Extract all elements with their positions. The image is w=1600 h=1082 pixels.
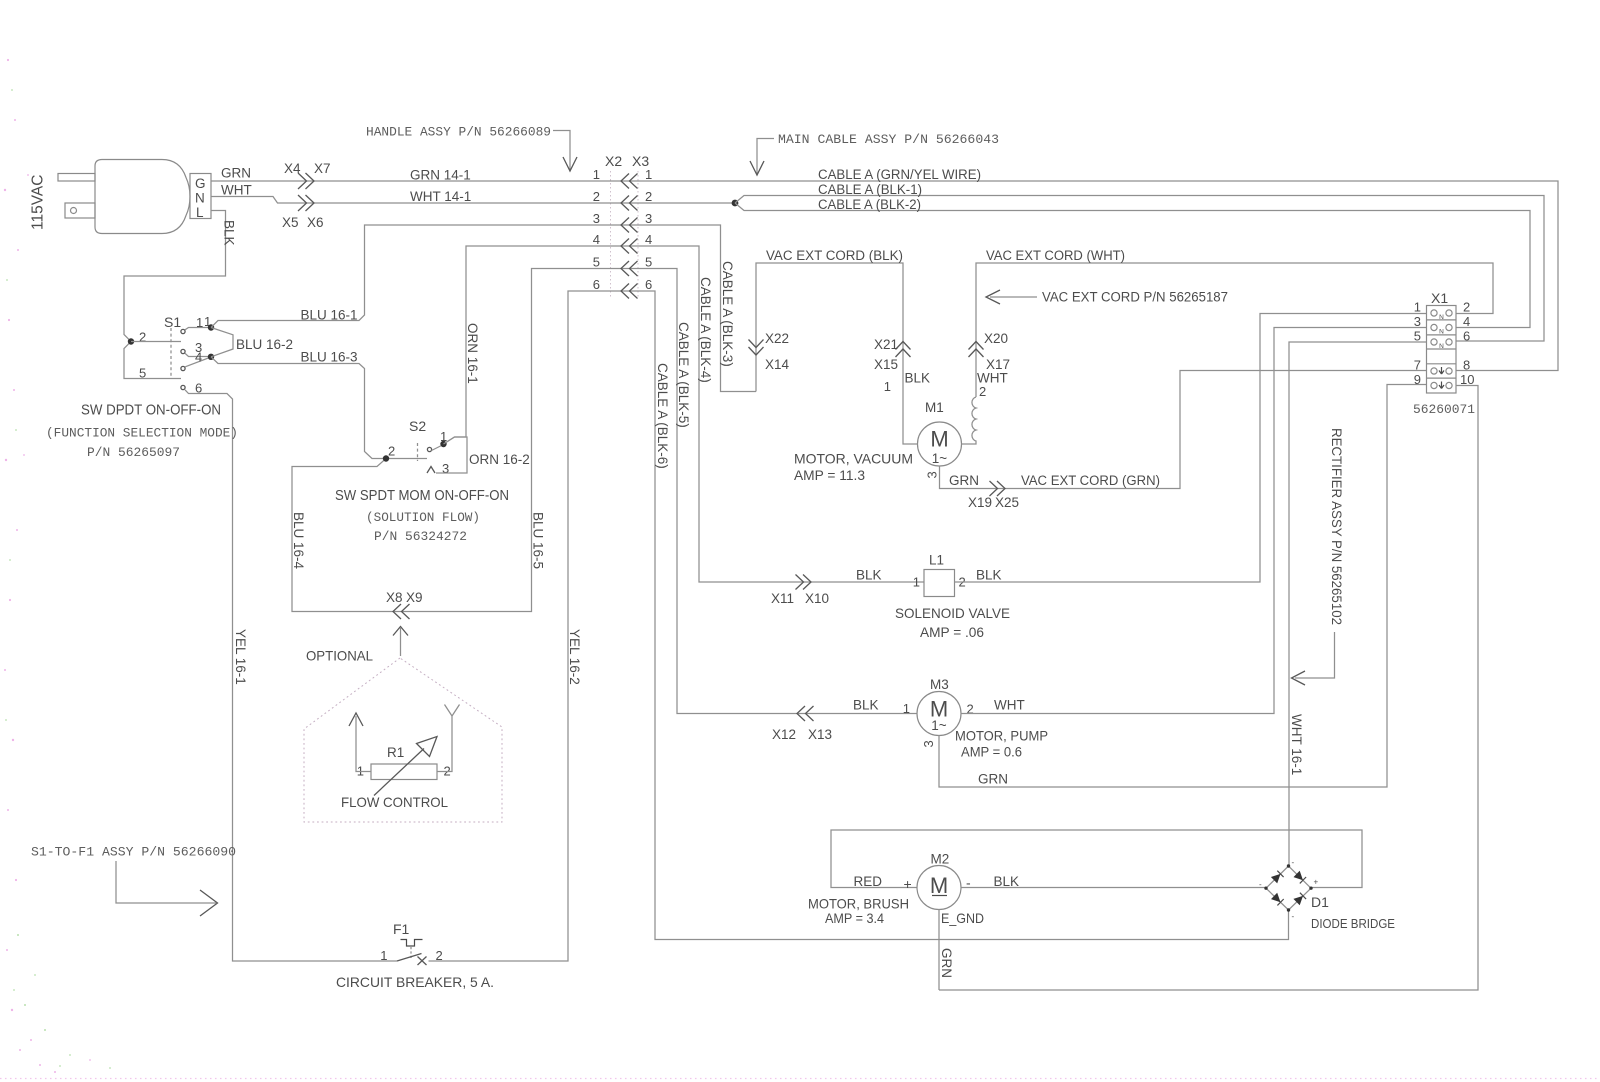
svg-text:BLU 16-3: BLU 16-3 [301, 350, 358, 365]
switch S1 DPDT [139, 314, 211, 396]
svg-text:X21: X21 [874, 337, 898, 352]
svg-text:4: 4 [593, 232, 600, 247]
svg-text:GRN: GRN [949, 473, 979, 488]
wire CABLE A BLK-3 X2 pin3 to vac ext cord [638, 225, 756, 392]
svg-text:X10: X10 [805, 591, 829, 606]
svg-text:VAC EXT CORD (WHT): VAC EXT CORD (WHT) [986, 248, 1125, 263]
diode D1d bottom-right [1293, 893, 1306, 906]
wire M2 E_GND GRN down to rail [938, 910, 940, 991]
svg-text:1: 1 [645, 167, 652, 182]
svg-text:1~: 1~ [931, 718, 947, 733]
svg-text:1~: 1~ [932, 451, 948, 466]
svg-text:MOTOR, PUMP: MOTOR, PUMP [955, 728, 1048, 744]
svg-text:GRN 14-1: GRN 14-1 [410, 168, 471, 183]
splice X20 X17 [969, 331, 1011, 372]
dashed optional boundary [304, 658, 502, 822]
wire CABLE A BLK-4 X3 pin4 to L1 pin1 [638, 246, 924, 582]
svg-text:F1: F1 [393, 921, 410, 937]
wire GRN / VAC EXT CORD GRN M1 pin3 to X1 pin7 [940, 371, 1427, 489]
splice X11 X10 [771, 575, 829, 607]
svg-text:3: 3 [925, 471, 940, 478]
splice X8 X9 [386, 590, 423, 619]
diode D1b left-bottom [1271, 893, 1284, 906]
svg-text:1: 1 [903, 701, 910, 716]
svg-text:4: 4 [1463, 314, 1470, 329]
svg-text:CIRCUIT BREAKER, 5 A.: CIRCUIT BREAKER, 5 A. [336, 974, 494, 990]
svg-text:7: 7 [1414, 358, 1421, 373]
svg-text:(SOLUTION FLOW): (SOLUTION FLOW) [366, 510, 480, 525]
wire L1 pin2 to X1 pin1 [955, 314, 1427, 583]
svg-text:P/N 56265097: P/N 56265097 [87, 445, 180, 460]
splice X22 X14 [749, 331, 790, 372]
svg-text:2: 2 [967, 702, 974, 717]
svg-text:OPTIONAL: OPTIONAL [306, 648, 373, 664]
wire BLU 16-1 S1 pin1 to X2 pin3 [211, 225, 610, 328]
svg-text:YEL 16-2: YEL 16-2 [567, 629, 582, 685]
svg-text:2: 2 [436, 948, 443, 963]
svg-text:S1-TO-F1 ASSY P/N 56266090: S1-TO-F1 ASSY P/N 56266090 [31, 845, 236, 860]
svg-text:10: 10 [1460, 372, 1474, 387]
wire GRN 14-1 plug to X2 pin1 [211, 180, 610, 182]
diode D1c top-right [1294, 871, 1307, 884]
connector X1 terminal block [1413, 290, 1475, 417]
svg-text:M: M [930, 873, 948, 898]
svg-text:RED: RED [854, 874, 883, 889]
svg-text:X11: X11 [771, 591, 794, 606]
svg-text:2: 2 [593, 189, 600, 204]
svg-text:D1: D1 [1311, 894, 1329, 910]
svg-text:3: 3 [593, 211, 600, 226]
svg-text:AMP = 0.6: AMP = 0.6 [961, 744, 1022, 760]
svg-text:56260071: 56260071 [1413, 402, 1475, 417]
wire X2 pin4 to S2 ORN 16-1 [444, 246, 611, 444]
svg-text:1: 1 [380, 948, 387, 963]
svg-text:6: 6 [645, 277, 652, 292]
svg-text:X8: X8 [386, 590, 403, 605]
circuit breaker F1 [336, 921, 494, 990]
svg-text:1: 1 [1414, 300, 1421, 315]
svg-text:CABLE A (BLK-4): CABLE A (BLK-4) [698, 277, 713, 383]
svg-text:AMP = 3.4: AMP = 3.4 [825, 910, 884, 926]
svg-text:SOLENOID VALVE: SOLENOID VALVE [895, 605, 1010, 621]
wire X1 pin10 to M2 ground rail [939, 386, 1478, 991]
svg-text:CABLE A (BLK-6): CABLE A (BLK-6) [655, 363, 670, 469]
svg-text:VAC EXT CORD P/N 56265187: VAC EXT CORD P/N 56265187 [1042, 290, 1228, 305]
svg-text:CABLE A (GRN/YEL WIRE): CABLE A (GRN/YEL WIRE) [818, 167, 981, 182]
inductor M1 winding [962, 397, 977, 444]
svg-text:X2: X2 [605, 153, 622, 169]
junction dot S1 pin3/4 [208, 354, 214, 360]
scan noise speckles [4, 59, 91, 1073]
svg-text:GRN: GRN [978, 772, 1008, 787]
svg-text:3: 3 [442, 461, 449, 476]
motor M1 [918, 400, 962, 466]
svg-text:M2: M2 [931, 852, 950, 867]
svg-text:CABLE A (BLK-3): CABLE A (BLK-3) [720, 261, 735, 367]
svg-text:3: 3 [1414, 314, 1421, 329]
junction dot S1 pole 2 [128, 338, 134, 344]
svg-text:X13: X13 [808, 727, 832, 742]
svg-text:1: 1 [196, 315, 203, 330]
svg-text:VAC EXT CORD (BLK): VAC EXT CORD (BLK) [766, 248, 903, 263]
svg-text:L1: L1 [929, 553, 944, 568]
svg-text:2: 2 [388, 444, 395, 459]
svg-text:3: 3 [645, 211, 652, 226]
svg-text:X15: X15 [874, 357, 898, 372]
svg-text:X7: X7 [314, 161, 331, 176]
label VAC EXT CORD P/N 56265187 with arrow [986, 290, 1228, 305]
svg-text:CABLE A (BLK-1): CABLE A (BLK-1) [818, 182, 922, 197]
wire X2 pin5 to S2 box BLU 16-5 [292, 269, 610, 612]
svg-text:-: - [1292, 912, 1295, 921]
svg-text:SW SPDT MOM ON-OFF-ON: SW SPDT MOM ON-OFF-ON [335, 488, 509, 504]
optional flow control group [304, 627, 502, 823]
diode D1a left-top [1271, 871, 1284, 884]
solenoid L1 [913, 553, 966, 597]
svg-text:WHT 16-1: WHT 16-1 [1289, 714, 1304, 775]
svg-text:BLK: BLK [856, 568, 882, 583]
motor M2 brush [917, 852, 961, 910]
svg-text:9: 9 [1414, 372, 1421, 387]
wire X2 pin6 to F1 YEL 16-2 [429, 291, 611, 961]
junction dot S2 pin2 [383, 455, 389, 461]
svg-text:E_GND: E_GND [941, 910, 984, 926]
svg-text:X9: X9 [406, 590, 423, 605]
svg-text:WHT: WHT [994, 698, 1025, 713]
svg-text:X1: X1 [1431, 290, 1448, 306]
svg-text:BLK: BLK [222, 220, 237, 246]
svg-text:CABLE A (BLK-2): CABLE A (BLK-2) [818, 197, 921, 212]
svg-text:2: 2 [645, 189, 652, 204]
wire BLU 16-3 S1 pin4 to S2 pin2 [211, 357, 386, 459]
svg-text:S1: S1 [164, 314, 181, 330]
svg-text:L: L [196, 205, 204, 220]
svg-text:AMP = 11.3: AMP = 11.3 [794, 467, 865, 483]
svg-text:S2: S2 [409, 418, 426, 434]
svg-text:GRN: GRN [221, 166, 251, 181]
svg-text:VAC EXT CORD (GRN): VAC EXT CORD (GRN) [1021, 473, 1160, 488]
label RECTIFIER ASSY P/N 56265102 with arrow [1292, 428, 1345, 685]
svg-text:5: 5 [593, 255, 600, 270]
wire CABLE A BLK-2 to X1 pin4 [735, 203, 1530, 328]
svg-text:M1: M1 [925, 400, 944, 415]
svg-text:1: 1 [884, 379, 891, 394]
arrow to X8 X9 [400, 628, 402, 656]
svg-text:(FUNCTION SELECTION MODE): (FUNCTION SELECTION MODE) [46, 426, 238, 441]
wire CABLE A GRN/YEL from X3 pin1 to X1 pin8 [638, 181, 1558, 371]
diode bridge D1 [1259, 858, 1395, 931]
wire VAC EXT CORD BLK to M1 pin1 [756, 263, 918, 444]
svg-text:BLU 16-2: BLU 16-2 [236, 337, 293, 352]
splice X5 X6 [282, 195, 324, 230]
svg-text:-: - [1259, 880, 1262, 889]
svg-text:ORN 16-1: ORN 16-1 [465, 323, 480, 384]
wire CABLE A BLK-6 X3 pin6 to D1 bridge bottom [638, 291, 1289, 940]
connector X2 X3 [593, 153, 652, 299]
label S1-TO-F1 ASSY with arrow [31, 845, 236, 917]
motor M3 [917, 677, 961, 736]
svg-text:N: N [195, 191, 205, 206]
wire ORN 16-2 S2 pin1 to pin3 [436, 437, 467, 473]
svg-text:-: - [966, 875, 971, 891]
svg-text:M: M [930, 427, 948, 452]
label HANDLE ASSY P/N 56266089 [366, 125, 577, 172]
svg-text:MOTOR, VACUUM: MOTOR, VACUUM [794, 451, 913, 467]
svg-text:4: 4 [195, 350, 202, 365]
wire X1 pin5 WHT 16-1 to D1 top [1289, 342, 1426, 866]
wire YEL 16-1 S1 pin6 to F1 [185, 390, 397, 961]
svg-text:ORN 16-2: ORN 16-2 [469, 452, 530, 467]
svg-text:G: G [195, 176, 206, 191]
svg-text:8: 8 [1463, 358, 1470, 373]
svg-text:WHT 14-1: WHT 14-1 [410, 189, 471, 204]
svg-text:X22: X22 [765, 331, 789, 346]
svg-text:BLU 16-5: BLU 16-5 [531, 512, 546, 569]
svg-text:N: N [1439, 343, 1444, 350]
svg-text:BLK: BLK [905, 371, 931, 386]
svg-text:X14: X14 [765, 357, 790, 372]
momentary contact arrow pin3 [427, 467, 435, 474]
splice X4 X7 [284, 161, 331, 189]
label MAIN CABLE ASSY P/N 56266043 [750, 132, 999, 175]
node dots D1 [1287, 864, 1290, 867]
wire BLK plug to S1 poles [124, 211, 226, 379]
wire M2 minus to D1 left [961, 887, 1266, 889]
svg-text:BLK: BLK [994, 874, 1020, 889]
wire CABLE A BLK-1 to X1 pin6 [735, 196, 1544, 342]
wire WHT 14-1 plug to X2 pin2 [211, 197, 610, 204]
svg-text:3: 3 [921, 740, 936, 747]
svg-text:MAIN CABLE ASSY P/N 56266043: MAIN CABLE ASSY P/N 56266043 [778, 132, 999, 147]
svg-text:WHT: WHT [221, 183, 252, 198]
wire VAC EXT CORD WHT M1 pin2 to X1 pin2 [976, 263, 1493, 397]
svg-text:X20: X20 [984, 331, 1008, 346]
svg-text:6: 6 [593, 277, 600, 292]
junction dot S2 pin1 [440, 441, 446, 447]
svg-text:FLOW CONTROL: FLOW CONTROL [341, 794, 448, 810]
junction dot S1 pin1 [208, 324, 214, 330]
wire M3 pin2 WHT to X1 pin3 [961, 328, 1426, 714]
svg-text:2: 2 [979, 384, 986, 399]
wire BLU 16-2 S1 pin1 to pin3 [211, 328, 233, 357]
svg-text:-: - [1292, 858, 1295, 867]
svg-text:6: 6 [1463, 329, 1470, 344]
svg-text:N: N [1439, 329, 1444, 336]
svg-text:X25: X25 [995, 495, 1019, 510]
svg-text:X6: X6 [307, 215, 324, 230]
splice X12 X13 [772, 706, 832, 742]
svg-text:HANDLE ASSY P/N 56266089: HANDLE ASSY P/N 56266089 [366, 125, 551, 140]
power plug 115VAC [58, 160, 211, 234]
svg-text:SW DPDT ON-OFF-ON: SW DPDT ON-OFF-ON [81, 403, 221, 419]
splice X19 X25 [968, 481, 1019, 510]
splice X21 X15 [874, 337, 911, 372]
svg-text:R1: R1 [387, 745, 404, 760]
potentiometer wiper arrow [374, 749, 424, 796]
svg-text:X4: X4 [284, 161, 301, 176]
svg-text:DIODE BRIDGE: DIODE BRIDGE [1311, 917, 1395, 931]
svg-text:GRN: GRN [939, 948, 954, 978]
wire S1 pole 2 arm [131, 341, 181, 343]
junction dot cable A split [732, 200, 739, 207]
svg-text:5: 5 [139, 366, 146, 381]
svg-text:5: 5 [1414, 329, 1421, 344]
wire X3 pin2 to junction [638, 202, 735, 204]
svg-text:AMP = .06: AMP = .06 [920, 624, 984, 640]
svg-text:BLU 16-4: BLU 16-4 [291, 512, 306, 570]
svg-text:X12: X12 [772, 727, 796, 742]
svg-text:115VAC: 115VAC [30, 175, 47, 230]
svg-text:YEL 16-1: YEL 16-1 [233, 629, 248, 685]
svg-text:M3: M3 [930, 677, 949, 692]
svg-text:1: 1 [593, 167, 600, 182]
svg-text:CABLE A (BLK-5): CABLE A (BLK-5) [676, 322, 691, 428]
svg-text:P/N 56324272: P/N 56324272 [374, 529, 467, 544]
wire M3 pin3 GRN to X1 pin9 [939, 385, 1426, 788]
svg-text:2: 2 [1463, 300, 1470, 315]
wire R1 pin2 fork [437, 705, 460, 772]
svg-text:4: 4 [645, 232, 652, 247]
wire CABLE A BLK-5 X3 pin5 to M3 pin1 [638, 269, 917, 714]
switch S2 SPDT MOM [386, 418, 449, 476]
svg-text:2: 2 [139, 330, 146, 345]
svg-text:X5: X5 [282, 215, 299, 230]
svg-text:+: + [1314, 878, 1319, 887]
svg-text:1: 1 [913, 575, 920, 590]
wire M2 plus loop to D1 plus [831, 830, 1362, 888]
svg-text:N: N [1439, 314, 1444, 321]
svg-text:+: + [904, 876, 912, 892]
svg-text:5: 5 [645, 255, 652, 270]
svg-text:BLK: BLK [853, 698, 879, 713]
svg-text:BLU 16-1: BLU 16-1 [301, 308, 358, 323]
wire R1 pin1 up arrow [356, 716, 371, 772]
svg-text:RECTIFIER ASSY P/N 56265102: RECTIFIER ASSY P/N 56265102 [1329, 428, 1344, 625]
svg-text:X19: X19 [968, 495, 992, 510]
svg-text:BLK: BLK [976, 568, 1002, 583]
